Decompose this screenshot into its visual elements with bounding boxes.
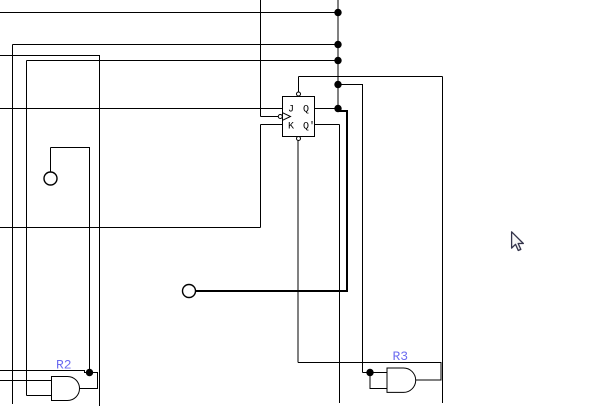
- wire R2 output loop: [80, 373, 98, 389]
- wire vertical left 1: [12, 45, 14, 405]
- wire bus line 1 top: [0, 12, 338, 14]
- junction dot F R2 node (89,372): [86, 369, 93, 376]
- wire preset stub vertical: [298, 77, 300, 93]
- wire vertical left 3: [99, 56, 101, 406]
- junction dot C (338,60): [334, 57, 341, 64]
- wire right long vertical: [442, 77, 444, 404]
- junction dot A (338,12): [334, 9, 341, 16]
- mouse cursor: [512, 232, 524, 251]
- AND gate R2 body: [52, 377, 80, 401]
- flip-flop U1 clear pin bubble (bottom): [297, 137, 301, 141]
- wire mid vertical drop: [362, 85, 364, 373]
- svg-text:K: K: [288, 122, 294, 133]
- wire bus line 3: [27, 60, 339, 62]
- junction dot E Q output (338,108): [334, 105, 341, 112]
- wire Q' output stub: [315, 124, 340, 126]
- wire preset net horizontal: [299, 76, 443, 78]
- wire R3 junction to upper input: [363, 372, 388, 374]
- wire R3 clear net horizontal: [298, 362, 442, 364]
- junction dot D (338,84): [334, 81, 341, 88]
- wire vertical pin1 to R2 node: [89, 148, 91, 373]
- wire junction column vertical: [337, 0, 339, 109]
- input pin P2 (circle at 189,291): [183, 285, 196, 298]
- wire R3 output loop: [416, 363, 442, 381]
- wire from junction to right drop: [338, 84, 363, 86]
- svg-text:R3: R3: [393, 349, 409, 364]
- wire J input net: [0, 108, 283, 110]
- wire clock feed vertical: [260, 0, 262, 117]
- wire R2 lower input: [27, 395, 52, 397]
- wire pin1 stem: [50, 148, 52, 173]
- JK flip-flop U1 body: [283, 97, 315, 137]
- wire bus line 2: [13, 44, 339, 46]
- wire thick Q feedback to input pin: [196, 111, 347, 291]
- wire Q output to junction: [315, 108, 339, 110]
- junction dot G R3 node (370,372): [366, 369, 373, 376]
- svg-text:J: J: [288, 105, 294, 116]
- wire R2 node jog: [85, 371, 91, 373]
- wire R3 lower input: [370, 373, 388, 389]
- wire horizontal to left drop: [0, 55, 100, 57]
- flip-flop U1 clock bubble: [278, 115, 282, 119]
- wire pin1 feedback horizontal: [51, 147, 91, 149]
- input pin P1 (circle at 50,178): [44, 172, 57, 185]
- flip-flop U1 preset pin bubble (top): [297, 92, 301, 96]
- wire clock stub: [261, 116, 279, 118]
- junction dot B (338,44): [334, 41, 341, 48]
- flip-flop U1 clock triangle: [283, 113, 291, 121]
- wire vertical left 2: [26, 61, 28, 396]
- wire clear feed vertical: [297, 141, 299, 363]
- AND gate R3 body: [387, 368, 416, 392]
- wire K net horizontal: [0, 227, 261, 229]
- wire K feed vertical: [260, 125, 262, 228]
- wire R2 upper input net: [0, 380, 52, 382]
- svg-text:R2: R2: [56, 358, 72, 373]
- wire Q' vertical drop: [339, 125, 341, 404]
- svg-text:Q': Q': [303, 121, 315, 133]
- wire K input stub: [261, 124, 283, 126]
- wire R2 node horizontal: [0, 370, 85, 372]
- svg-text:Q: Q: [303, 105, 309, 116]
